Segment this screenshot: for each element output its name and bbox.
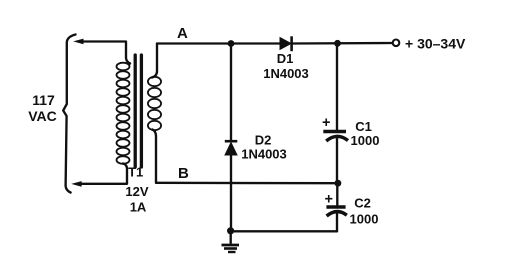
- wire ground stem: [230, 233, 232, 243]
- wire primary top lead: [79, 42, 130, 64]
- svg-text:1000: 1000: [351, 133, 380, 148]
- transformer T1 secondary coil: [148, 77, 161, 130]
- wire primary bottom lead: [79, 164, 127, 184]
- svg-text:1N4003: 1N4003: [263, 66, 309, 81]
- node junction dot B/C1 bottom: [335, 180, 342, 187]
- svg-text:C2: C2: [354, 196, 371, 211]
- svg-text:+: +: [322, 115, 330, 131]
- svg-text:117: 117: [32, 92, 55, 108]
- capacitor C1: [323, 130, 346, 133]
- diode D1: [280, 38, 291, 50]
- svg-text:1A: 1A: [130, 200, 147, 215]
- node junction dot ground: [227, 227, 234, 234]
- diode D2: [225, 143, 237, 156]
- svg-text:1N4003: 1N4003: [241, 147, 287, 162]
- wire C1 branch: [336, 43, 338, 183]
- transformer T1 primary coil: [117, 63, 130, 164]
- output terminal circle: [393, 40, 400, 47]
- svg-text:VAC: VAC: [28, 108, 57, 124]
- wire C2 branch: [336, 183, 339, 231]
- wire D2 branch vertical: [230, 44, 232, 231]
- wire node A top: [157, 42, 392, 45]
- wire secondary bottom lead: [153, 130, 157, 183]
- svg-text:D2: D2: [255, 133, 272, 148]
- svg-text:12V: 12V: [125, 184, 148, 199]
- svg-text:+ 30–34V: + 30–34V: [405, 36, 466, 52]
- transformer core bars: [134, 55, 137, 167]
- wire bottom rail: [231, 230, 338, 232]
- svg-text:1000: 1000: [350, 212, 379, 227]
- arrow bottom-left: [71, 181, 81, 187]
- wire secondary top lead: [152, 44, 157, 78]
- svg-text:C1: C1: [355, 119, 372, 134]
- arrow top-left: [73, 39, 83, 45]
- capacitor C2: [326, 205, 345, 208]
- svg-text:T1: T1: [128, 165, 143, 180]
- svg-text:D1: D1: [277, 51, 294, 66]
- node junction dot C1 top: [334, 40, 341, 47]
- wire node B horizontal: [156, 182, 338, 185]
- wire left rail 117VAC: [63, 35, 75, 193]
- node A junction dot: [228, 40, 235, 47]
- ground: [222, 245, 240, 252]
- svg-text:A: A: [177, 25, 188, 42]
- svg-text:+: +: [325, 192, 333, 208]
- svg-text:B: B: [178, 165, 189, 182]
